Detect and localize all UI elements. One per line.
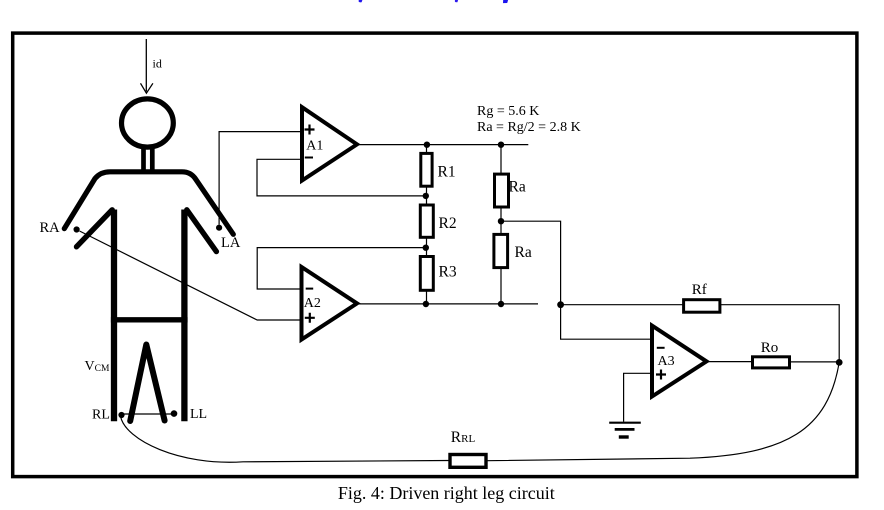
node Ra bottom xyxy=(498,301,504,307)
svg-text:Ra: Ra xyxy=(509,179,526,196)
resistor Ra lower xyxy=(494,234,508,267)
svg-text:Ra: Ra xyxy=(515,244,532,261)
svg-text:VCM: VCM xyxy=(85,359,110,374)
svg-text:LA: LA xyxy=(221,235,241,251)
resistor R3 xyxy=(420,257,433,291)
cropped blue title text fragment 3 xyxy=(503,0,508,3)
patient right torso-leg line xyxy=(181,210,187,422)
node R2-R3 junction xyxy=(423,245,429,251)
wire RL-LL xyxy=(124,413,172,415)
node R3 bottom A2 output xyxy=(423,301,429,307)
current id arrow xyxy=(141,39,153,93)
svg-text:RA: RA xyxy=(40,220,61,236)
node A1 output R1 top xyxy=(424,142,430,148)
resistor R2 xyxy=(420,205,433,237)
resistor RRL xyxy=(450,455,486,468)
wire A3 plus input to ground xyxy=(624,373,650,421)
wire Rf feedback net xyxy=(561,305,840,363)
resistor R1 xyxy=(421,153,432,186)
wire A2 output xyxy=(358,303,538,305)
electrode LL xyxy=(171,410,178,417)
node R1-R2 junction xyxy=(423,193,429,199)
electrode RA xyxy=(74,226,80,232)
svg-text:R3: R3 xyxy=(439,264,457,281)
op-amp A2 xyxy=(302,267,358,340)
wire RRL to RL electrode (left curve) xyxy=(121,417,449,463)
wire Ro to output node xyxy=(789,361,839,363)
svg-text:Ro: Ro xyxy=(761,340,779,356)
wire Ra midpoint to A3 minus input xyxy=(501,221,650,339)
wire RA to A2 plus input xyxy=(80,231,300,320)
node A3 output xyxy=(836,359,843,366)
patient left torso-leg line xyxy=(111,210,117,422)
op-amp A3 xyxy=(652,326,707,397)
node Ra midpoint xyxy=(498,218,504,224)
patient inner legs xyxy=(130,345,164,422)
wire Ra column xyxy=(500,145,502,304)
wire output node to RRL (right curve) xyxy=(488,362,840,460)
svg-text:A1: A1 xyxy=(306,139,323,154)
patient shoulders and outer arms xyxy=(64,172,233,235)
patient right inner arm xyxy=(187,210,217,252)
cropped blue title text fragment 1 xyxy=(359,0,363,2)
wire A1 minus feedback from R1-R2 node xyxy=(257,159,424,196)
svg-text:RRL: RRL xyxy=(451,429,476,446)
patient head xyxy=(121,99,173,147)
node Rf tap xyxy=(557,301,564,308)
svg-text:Fig. 4: Driven right leg circu: Fig. 4: Driven right leg circuit xyxy=(338,483,555,503)
electrode LA xyxy=(216,225,222,231)
wire A2 minus feedback from R2-R3 node xyxy=(257,248,424,289)
node Ra top xyxy=(498,142,504,148)
svg-text:id: id xyxy=(153,56,162,70)
wire R1 R2 R3 column xyxy=(426,145,428,304)
svg-text:Ra = Rg/2 = 2.8 K: Ra = Rg/2 = 2.8 K xyxy=(477,120,581,135)
resistor Rf xyxy=(684,300,720,313)
svg-text:RL: RL xyxy=(92,408,110,423)
electrode RL xyxy=(118,412,124,418)
wire A3 output xyxy=(707,361,753,363)
svg-text:LL: LL xyxy=(190,407,207,422)
op-amp A1 xyxy=(302,107,357,180)
wire A1 output xyxy=(359,144,528,146)
resistor Ra upper xyxy=(495,174,509,207)
patient neck xyxy=(144,148,153,170)
wire LA to A1 plus input xyxy=(219,132,300,225)
resistor Ro xyxy=(753,357,790,368)
svg-text:R2: R2 xyxy=(439,215,457,232)
svg-text:A3: A3 xyxy=(658,354,675,369)
ground xyxy=(609,423,641,437)
svg-text:Rf: Rf xyxy=(692,282,707,298)
patient hip line xyxy=(111,317,188,322)
svg-text:Rg = 5.6 K: Rg = 5.6 K xyxy=(477,104,539,119)
svg-text:A2: A2 xyxy=(304,296,321,311)
svg-text:R1: R1 xyxy=(438,164,456,181)
cropped blue title text fragment 2 xyxy=(455,0,458,2)
patient left inner arm xyxy=(77,210,113,247)
